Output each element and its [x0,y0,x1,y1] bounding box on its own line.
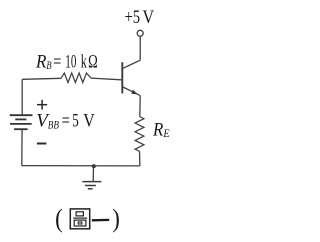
ground bar 3 [88,188,93,190]
wire RE to bottom [139,151,141,166]
wire collector vertical [139,36,141,60]
svg-text:V: V [83,112,95,132]
battery VBB plate 2 short [15,118,26,120]
svg-text:BB: BB [48,118,60,132]
top wire right / base wire [91,78,121,80]
left wire upper [21,79,23,114]
svg-text:=: = [62,112,70,132]
ground bar 1 [82,181,101,183]
ground stem [92,166,94,181]
svg-text:R: R [152,121,163,141]
transistor Q1 emitter arrow [131,90,138,95]
supply terminal circle [137,30,143,36]
svg-text:B: B [46,58,52,72]
label VBB = 5 V [36,112,95,132]
caption dash (one) [92,219,109,222]
ground bar 2 [85,185,96,187]
battery plus sign [37,100,47,110]
battery VBB plate 1 long [10,114,33,116]
bottom wire [22,165,140,167]
label +5V [125,8,155,28]
svg-text:5: 5 [72,112,79,132]
battery minus sign [37,143,47,145]
transistor Q1 base bar [121,62,123,93]
svg-text:+5: +5 [125,8,141,28]
svg-text:V: V [143,8,155,28]
battery VBB plate 4 short [14,128,28,130]
svg-text:(: ( [55,203,63,233]
resistor RB zigzag [61,73,91,83]
battery VBB plate 3 long [10,123,32,125]
wire emitter to RE [139,96,141,117]
caption glyph TU (figure) [70,209,89,229]
label RE [152,121,170,141]
left wire lower [21,130,23,166]
svg-text:): ) [112,203,120,233]
junction dot [92,164,96,168]
transistor Q1 collector lead [123,60,140,68]
top wire left [22,78,61,79]
label RB = 10 kOhm [35,53,98,73]
svg-text:k: k [81,53,88,73]
svg-text:10: 10 [65,53,76,73]
svg-text:=: = [53,53,61,73]
resistor RE zigzag [135,117,144,152]
svg-text:Ω: Ω [88,53,98,73]
svg-text:E: E [163,126,171,140]
transistor Q1 emitter lead [123,87,140,96]
svg-text:R: R [35,53,46,73]
